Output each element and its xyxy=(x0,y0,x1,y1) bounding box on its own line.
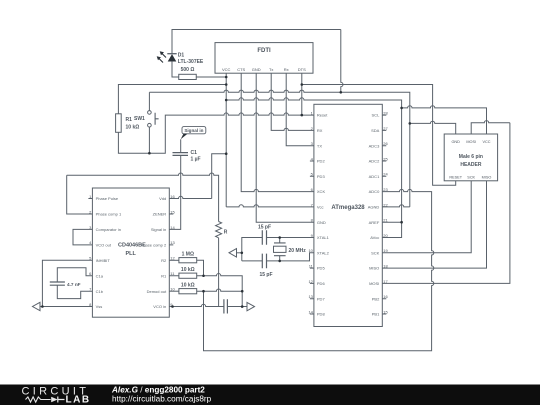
svg-text:ADC3: ADC3 xyxy=(369,143,380,148)
svg-text:MISO: MISO xyxy=(369,266,379,271)
svg-text:ZENER: ZENER xyxy=(153,212,167,217)
svg-text:RESET: RESET xyxy=(449,176,462,180)
PLL chip U3: CD4046BE box with pin labels xyxy=(92,188,169,317)
svg-text:ATmega328: ATmega328 xyxy=(331,205,365,211)
wire: Demod out 10k row to cap junction xyxy=(169,290,179,292)
svg-text:PB1: PB1 xyxy=(372,312,380,317)
wire: R1 top to VCC pin line xyxy=(118,85,226,114)
footer bar xyxy=(0,385,540,405)
svg-text:MISO: MISO xyxy=(482,176,492,180)
svg-text:Signal in: Signal in xyxy=(184,128,203,133)
svg-text:Demod out: Demod out xyxy=(147,289,167,294)
svg-text:C1b: C1b xyxy=(96,289,104,294)
op-amp U1: FDTI interface box xyxy=(215,43,313,74)
wire: pin stubs PLL xyxy=(88,199,173,245)
svg-text:Phase comp 2: Phase comp 2 xyxy=(141,242,167,247)
svg-text:15 pF: 15 pF xyxy=(258,225,271,231)
svg-text:Reset: Reset xyxy=(317,113,328,118)
svg-text:Comparator in: Comparator in xyxy=(96,227,121,232)
wire: Vss to left flag xyxy=(40,306,92,308)
svg-text:R1: R1 xyxy=(161,273,167,278)
svg-text:C1a: C1a xyxy=(96,273,104,278)
svg-text:10 kΩ: 10 kΩ xyxy=(181,267,195,273)
svg-text:GND: GND xyxy=(252,67,261,72)
svg-text:R1: R1 xyxy=(126,117,133,123)
capacitor (VCO in coupling) xyxy=(224,299,228,313)
svg-text:ADC1: ADC1 xyxy=(369,174,380,179)
svg-text:PD6: PD6 xyxy=(317,281,326,286)
wire: GND rail branch to header GND xyxy=(410,121,456,134)
wire: LED cathode top loop to GND rail drop xyxy=(172,30,341,54)
svg-text:Alex.G / engg2800 part2: Alex.G / engg2800 part2 xyxy=(111,386,205,395)
switch SW1 pushbutton xyxy=(148,111,152,115)
svg-text:R2: R2 xyxy=(161,258,167,263)
wire: crystal flag stub xyxy=(237,252,242,254)
wire: pin stubs ATmega left xyxy=(310,161,314,314)
wire: Signal in flag through C1 to PLL pin 14 xyxy=(180,139,182,152)
svg-text:Phase comp 1: Phase comp 1 xyxy=(96,212,122,217)
resistor R (zigzag) xyxy=(216,222,222,238)
wire: FDTI GND to ATmega GND xyxy=(256,73,314,222)
wire: R2 1Mohm to R1 row xyxy=(169,259,179,261)
svg-text:SCL: SCL xyxy=(372,113,381,118)
svg-text:VCC: VCC xyxy=(222,67,231,72)
svg-text:XTAL1: XTAL1 xyxy=(317,235,330,240)
LED D1 LTL-307EE xyxy=(167,53,176,55)
svg-text:PLL: PLL xyxy=(126,251,137,257)
wire: header SCK down to ATmega SCK xyxy=(382,181,471,253)
flag: Signal in xyxy=(182,127,206,134)
svg-text:AGND: AGND xyxy=(368,205,380,210)
svg-text:LAB: LAB xyxy=(66,394,91,405)
wire: FDTI Rx to ATmega TX xyxy=(286,73,314,146)
wire: ATmega ADC0 to PLL demod junction (long loop) xyxy=(204,189,434,350)
wire: SW1 top / LED GND line to GND rail xyxy=(149,90,409,207)
svg-text:ADC2: ADC2 xyxy=(369,159,380,164)
wire: VCC branch across top of ATmega xyxy=(226,98,401,108)
svg-text:GND: GND xyxy=(317,220,326,225)
capacitor 15 pF (bottom) xyxy=(262,254,266,269)
svg-text:TX: TX xyxy=(317,143,322,148)
svg-text:C1: C1 xyxy=(191,150,198,156)
svg-text:LTL-307EE: LTL-307EE xyxy=(178,59,204,65)
microcontroller U2: ATmega328 box with pin labels xyxy=(314,104,382,326)
svg-text:10 kΩ: 10 kΩ xyxy=(181,283,195,289)
svg-text:1 µF: 1 µF xyxy=(191,157,201,163)
capacitor 4.7 nF xyxy=(50,282,65,285)
svg-text:SCK: SCK xyxy=(371,250,380,255)
resistor 10 kOhm (Demod out) xyxy=(179,289,197,294)
capacitor 15 pF (top) xyxy=(262,230,266,245)
node flag right (demod net) xyxy=(247,302,255,310)
wire: FDTI VCC pin down and across to ATmega Vcc xyxy=(225,73,227,207)
svg-text:VCO in: VCO in xyxy=(153,304,166,309)
svg-text:PD7: PD7 xyxy=(317,296,326,301)
node flag crystal (ground net) xyxy=(229,249,237,257)
resistor 500 ohm xyxy=(179,74,197,79)
svg-text:Signal in: Signal in xyxy=(151,227,166,232)
wire: phase comp 1 loop to R top xyxy=(67,173,219,222)
wire: FDTI CTS to ATmega XCK xyxy=(241,73,314,191)
svg-text:Vdd: Vdd xyxy=(159,196,166,201)
svg-text:PD5: PD5 xyxy=(317,266,326,271)
svg-text:DTS: DTS xyxy=(298,67,306,72)
svg-text:AREF: AREF xyxy=(369,220,380,225)
svg-text:1 MΩ: 1 MΩ xyxy=(182,252,194,258)
svg-text:HEADER: HEADER xyxy=(460,162,482,168)
wire: pin stubs ATmega right xyxy=(382,115,386,314)
node flag left (Vss net) xyxy=(33,302,41,310)
wire: VCO in row to coupling cap and flag xyxy=(169,304,224,306)
wire: header MISO down to ATmega MISO xyxy=(382,181,486,268)
svg-text:SCK: SCK xyxy=(467,176,475,180)
wire: XTAL1 row with crystal and 15pF xyxy=(267,237,314,239)
wire: header MOSI loop to ATmega MOSI xyxy=(471,121,510,134)
wire: C1a to 4.7nF to C1b xyxy=(57,268,92,282)
svg-text:Phase Pulse: Phase Pulse xyxy=(96,196,119,201)
svg-text:PD3: PD3 xyxy=(317,174,326,179)
wire: crystal stubs xyxy=(279,238,281,261)
svg-text:Vss: Vss xyxy=(96,304,103,309)
wire: comparator in to VCO out loop xyxy=(73,229,92,244)
svg-text:Male 6 pin: Male 6 pin xyxy=(459,154,483,160)
wire: LED anode to 500ohm to VCC pin xyxy=(172,61,179,77)
svg-text:MOSI: MOSI xyxy=(466,140,476,144)
capacitor C1 1uF xyxy=(173,153,189,156)
svg-text:SDA: SDA xyxy=(371,128,380,133)
svg-text:PD2: PD2 xyxy=(317,159,326,164)
wire: reset line SW1/R1 to ATmega Reset xyxy=(118,132,149,153)
svg-text:SW1: SW1 xyxy=(134,116,145,122)
svg-text:Tx: Tx xyxy=(269,67,273,72)
wire: FDTI Tx to ATmega RX xyxy=(271,73,314,130)
resistor R1 10 kOhm xyxy=(116,114,122,133)
svg-text:XTAL2: XTAL2 xyxy=(317,250,330,255)
svg-text:R: R xyxy=(224,230,228,236)
wire: VCC branch to PLL Vdd xyxy=(212,154,227,199)
svg-text:INHIBIT: INHIBIT xyxy=(96,258,111,263)
wire: R bottom to VCO in row xyxy=(218,238,220,307)
svg-text:4.7 nF: 4.7 nF xyxy=(67,282,81,287)
svg-text:15 pF: 15 pF xyxy=(259,272,272,278)
svg-text:Rx: Rx xyxy=(284,67,289,72)
svg-text:Vcc: Vcc xyxy=(317,205,324,210)
svg-text:VCC: VCC xyxy=(482,140,490,144)
wire: R1 10k row across to demod drop xyxy=(169,275,179,277)
svg-text:D1: D1 xyxy=(178,53,185,59)
svg-text:20 MHz: 20 MHz xyxy=(289,248,307,254)
svg-text:FDTI: FDTI xyxy=(257,48,271,54)
connector J1: Male 6 pin HEADER box xyxy=(444,134,497,181)
svg-text:MOSI: MOSI xyxy=(369,281,379,286)
crystal X1 20 MHz xyxy=(274,243,286,256)
svg-text:PD8: PD8 xyxy=(317,312,326,317)
wire: VCC rail to header VCC and down to AREF/AVcc xyxy=(402,106,487,134)
svg-text:PB2: PB2 xyxy=(372,296,380,301)
svg-text:10 kΩ: 10 kΩ xyxy=(126,125,140,131)
resistor 10 kOhm (R1 pin) xyxy=(179,273,197,278)
svg-text:GND: GND xyxy=(451,140,460,144)
resistor 1 MOhm xyxy=(179,258,197,263)
wire: XTAL2 row bottom with crystal and 15pF xyxy=(242,260,262,262)
svg-text:500 Ω: 500 Ω xyxy=(181,67,195,73)
svg-text:http://circuitlab.com/cajs8rp: http://circuitlab.com/cajs8rp xyxy=(112,395,212,404)
svg-text:RX: RX xyxy=(317,128,323,133)
svg-text:VCO out: VCO out xyxy=(96,242,112,247)
svg-text:AVcc: AVcc xyxy=(370,235,379,240)
svg-text:ADC0: ADC0 xyxy=(369,189,380,194)
svg-text:CTS: CTS xyxy=(237,67,245,72)
svg-text:XCK: XCK xyxy=(317,189,326,194)
junction dots xyxy=(225,76,228,79)
wire: INHIBIT down to Vss xyxy=(42,260,92,306)
wire: FDTI DTS to header RESET xyxy=(302,73,456,185)
